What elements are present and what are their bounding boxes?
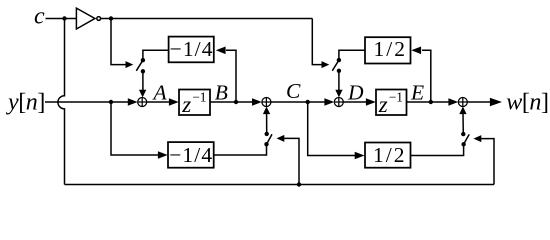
- arrow up into adder 4: [459, 107, 466, 115]
- node c junction 2 (after inverter): [109, 16, 113, 20]
- wire inverted c down to switch S2 control: [312, 19, 322, 65]
- arrow into switch S1: [126, 61, 134, 68]
- node C junction: [306, 100, 310, 104]
- wire lower 1/2 output to switch S4: [411, 144, 464, 155]
- wire node B up into -1/4 top box: [226, 50, 236, 102]
- arrow into left lower switch: [277, 135, 285, 142]
- gain box -1/4 (top): [169, 37, 214, 63]
- svg-text:−1: −1: [192, 89, 206, 104]
- adder 1 (node A input): [138, 98, 147, 107]
- svg-text:1/2: 1/2: [373, 143, 406, 167]
- switch S3 top contact: [265, 132, 269, 136]
- wire node E up into 1/2 top box: [422, 50, 431, 102]
- node E junction: [429, 100, 433, 104]
- switch S3 (lower left): [263, 107, 272, 147]
- wire c input to inverter: [46, 18, 77, 20]
- adder 3 (node D input): [334, 98, 343, 107]
- svg-text:1/2: 1/2: [374, 37, 407, 61]
- adder 4 (output): [458, 98, 467, 107]
- arrow into right lower switch: [474, 135, 482, 142]
- switch S4 (lower right): [459, 107, 469, 147]
- switch S3 bottom contact: [264, 142, 268, 146]
- switch S1 bottom contact: [141, 69, 145, 73]
- wire node C down to lower 1/2 box: [308, 102, 357, 156]
- arrow down into adder 3: [335, 90, 342, 98]
- gain box -1/4 (bottom): [168, 142, 214, 168]
- wire switch S2 down into adder 3: [338, 71, 340, 91]
- switch S4 bottom contact: [461, 142, 465, 146]
- wire inverter output across top: [101, 18, 313, 20]
- adder 2 (node C): [262, 98, 271, 107]
- switch S2 arm: [332, 60, 339, 71]
- arrow into adder 1: [128, 98, 138, 106]
- wire c down left side with hop over y[n] line: [58, 19, 65, 185]
- wire bottom bus: [65, 184, 495, 186]
- wire bottom bus branch up to left lower switch control: [284, 138, 299, 184]
- switch S1 top contact: [141, 58, 145, 62]
- wire adder 2 to adder 3: [271, 101, 326, 103]
- svg-text:B: B: [215, 81, 228, 105]
- wire switch S1 down into adder 1: [142, 71, 144, 90]
- switch S3 arm: [267, 134, 273, 144]
- wire delay 1 to adder 2: [210, 101, 254, 103]
- wire adder 4 to output: [467, 101, 491, 103]
- arrow into delay 2: [366, 98, 376, 106]
- node c junction 1: [62, 16, 66, 20]
- wire delay 2 to adder 4: [407, 101, 450, 103]
- switch S1: [136, 50, 169, 97]
- delay box z^-1 (second): [376, 90, 407, 116]
- arrow into switch S2: [322, 61, 330, 68]
- wire 1/2 output to switch S2 top: [339, 50, 365, 60]
- gain box 1/2 (bottom): [365, 143, 411, 168]
- svg-text:−1/4: −1/4: [169, 143, 213, 167]
- switch S4 arm: [464, 134, 470, 144]
- switch S2 (top middle): [332, 50, 365, 97]
- gain box 1/2 (top): [365, 37, 411, 63]
- switch S4 top contact: [461, 132, 465, 136]
- svg-text:w[n]: w[n]: [506, 90, 548, 116]
- arrow into adder 2: [252, 98, 262, 106]
- svg-text:D: D: [347, 80, 364, 104]
- arrow into -1/4 top box right side: [216, 47, 226, 55]
- wire inverted c down to switch S1 control: [111, 19, 126, 65]
- svg-text:C: C: [286, 79, 301, 103]
- arrow into adder 4: [448, 98, 458, 106]
- wire y junction down to lower -1/4 box: [111, 102, 160, 155]
- node bottom bus junction: [297, 182, 301, 186]
- wire switch S3 up into adder 2: [266, 114, 268, 134]
- wire adder 1 to delay 1: [147, 101, 171, 103]
- wire -1/4 output to switch S1 top: [143, 50, 169, 60]
- svg-text:z: z: [378, 92, 388, 117]
- arrow into delay 1: [169, 98, 179, 106]
- wire lower -1/4 output to switch S3: [214, 144, 267, 155]
- svg-text:y[n]: y[n]: [6, 90, 45, 116]
- wire adder 3 to delay 2: [343, 101, 367, 103]
- svg-text:−1/4: −1/4: [170, 37, 214, 61]
- wire y[n] input to adder 1: [45, 101, 129, 103]
- svg-text:E: E: [410, 80, 424, 104]
- switch S1 arm: [136, 60, 143, 71]
- svg-text:c: c: [34, 4, 45, 30]
- switch S2 top contact: [337, 58, 341, 62]
- arrow to w[n]: [490, 98, 502, 107]
- wire switch S4 up into adder 4: [462, 114, 464, 135]
- svg-text:A: A: [152, 80, 168, 104]
- arrow into 1/2 top box right side: [411, 47, 421, 55]
- arrow into adder 3: [324, 98, 334, 106]
- delay box z^-1 (first): [179, 90, 210, 116]
- wire bottom bus up to right lower switch control: [481, 139, 494, 185]
- switch S2 bottom contact: [337, 69, 341, 73]
- node y junction: [109, 100, 113, 104]
- svg-text:z: z: [181, 92, 191, 117]
- node B junction: [234, 100, 238, 104]
- arrow into lower -1/4 box: [158, 151, 168, 159]
- inverter (NOT gate): [76, 8, 95, 29]
- svg-text:−1: −1: [389, 89, 403, 104]
- arrow up into adder 2: [263, 107, 270, 115]
- arrow into lower 1/2 box: [355, 152, 365, 160]
- arrow down into adder 1: [139, 90, 146, 98]
